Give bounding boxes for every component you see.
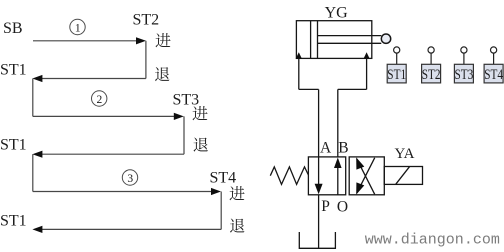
wire jog left to A [299,88,319,90]
svg-text:1: 1 [75,22,81,34]
valve right: crossed line with up-left arrow [357,159,375,194]
svg-text:ST1: ST1 [0,62,27,79]
svg-text:YG: YG [325,4,349,21]
valve left: A to P arrow down [318,157,320,185]
arrowhead right row5 [211,188,221,195]
piston rod bottom edge [318,42,382,44]
svg-text:ST3: ST3 [455,67,474,83]
rod end roller circle [381,34,390,43]
wire step2 retreat to ST1 [41,153,184,155]
wire step1 advance SB to ST2 [33,40,137,42]
svg-text:SB: SB [3,20,23,37]
svg-text:ST2: ST2 [422,67,441,83]
svg-text:3: 3 [127,173,133,185]
step number 3 [122,170,137,185]
limit switch ST4 [484,47,503,83]
svg-text:ST4: ST4 [484,67,503,83]
label tui (retreat) row 6 [230,219,245,233]
wire P to tank [318,195,320,248]
arrowhead right row3 [174,113,184,120]
svg-text:A: A [320,140,332,157]
piston line left [310,21,312,59]
wire step3 advance to ST4 [33,191,212,193]
svg-text:ST3: ST3 [173,92,200,109]
svg-text:www.diangon.com: www.diangon.com [365,231,500,248]
wire step3 retreat to ST1 [41,228,221,230]
cylinder YG body [296,21,371,59]
step number 2 [92,91,107,106]
wire corner down col ST4 [220,192,222,230]
wire corner down col ST3 [183,116,185,154]
step number 1 [70,19,85,34]
svg-text:P: P [321,198,330,215]
svg-text:ST1: ST1 [387,67,406,83]
svg-text:ST1: ST1 [0,213,27,230]
arrowhead left row2 [32,75,42,82]
limit switch ST2 [422,47,441,83]
spring left of valve [270,167,308,185]
piston line right [317,21,319,59]
svg-text:O: O [337,198,348,215]
arrowhead right row1 [136,37,146,44]
label jin (advance) row 1 [155,33,170,47]
svg-text:YA: YA [395,146,415,162]
arrowhead left row4 [32,151,42,158]
label tui (retreat) row 4 [194,138,209,152]
svg-text:2: 2 [97,94,103,106]
tank symbol [299,232,335,248]
wire B line down to valve [337,89,339,156]
wire corner down col ST2 [145,41,147,79]
valve left: O to B arrow up [337,167,339,195]
wire corner down left col b [32,154,34,191]
wire cylinder left port down [298,58,300,89]
wire A line down to valve [318,89,320,156]
wire step2 advance to ST3 [33,115,175,117]
cylinder port arrowhead right [364,52,370,59]
solenoid box [384,167,422,185]
piston rod top edge [318,35,382,37]
valve left position square [308,157,345,195]
valve right position square [349,157,384,195]
svg-text:ST2: ST2 [133,12,160,29]
cylinder port arrowhead left [296,52,302,59]
valve right: crossed line with down-left arrow [357,158,375,193]
arrowhead left row6 [32,226,42,233]
wire jog right to B [338,88,367,90]
wire cylinder right port down [366,58,368,89]
wire step1 retreat to ST1 [41,78,146,80]
label tui (retreat) row 2 [155,67,170,81]
svg-text:ST1: ST1 [0,137,27,154]
wire corner down left col a [32,79,34,117]
limit switch ST3 [454,47,473,83]
label jin (advance) row 3 [192,106,207,120]
svg-text:B: B [338,140,348,157]
label jin (advance) row 5 [229,186,244,200]
solenoid diagonal [396,167,410,185]
svg-text:ST4: ST4 [210,170,237,187]
limit switch ST1 [387,47,406,83]
